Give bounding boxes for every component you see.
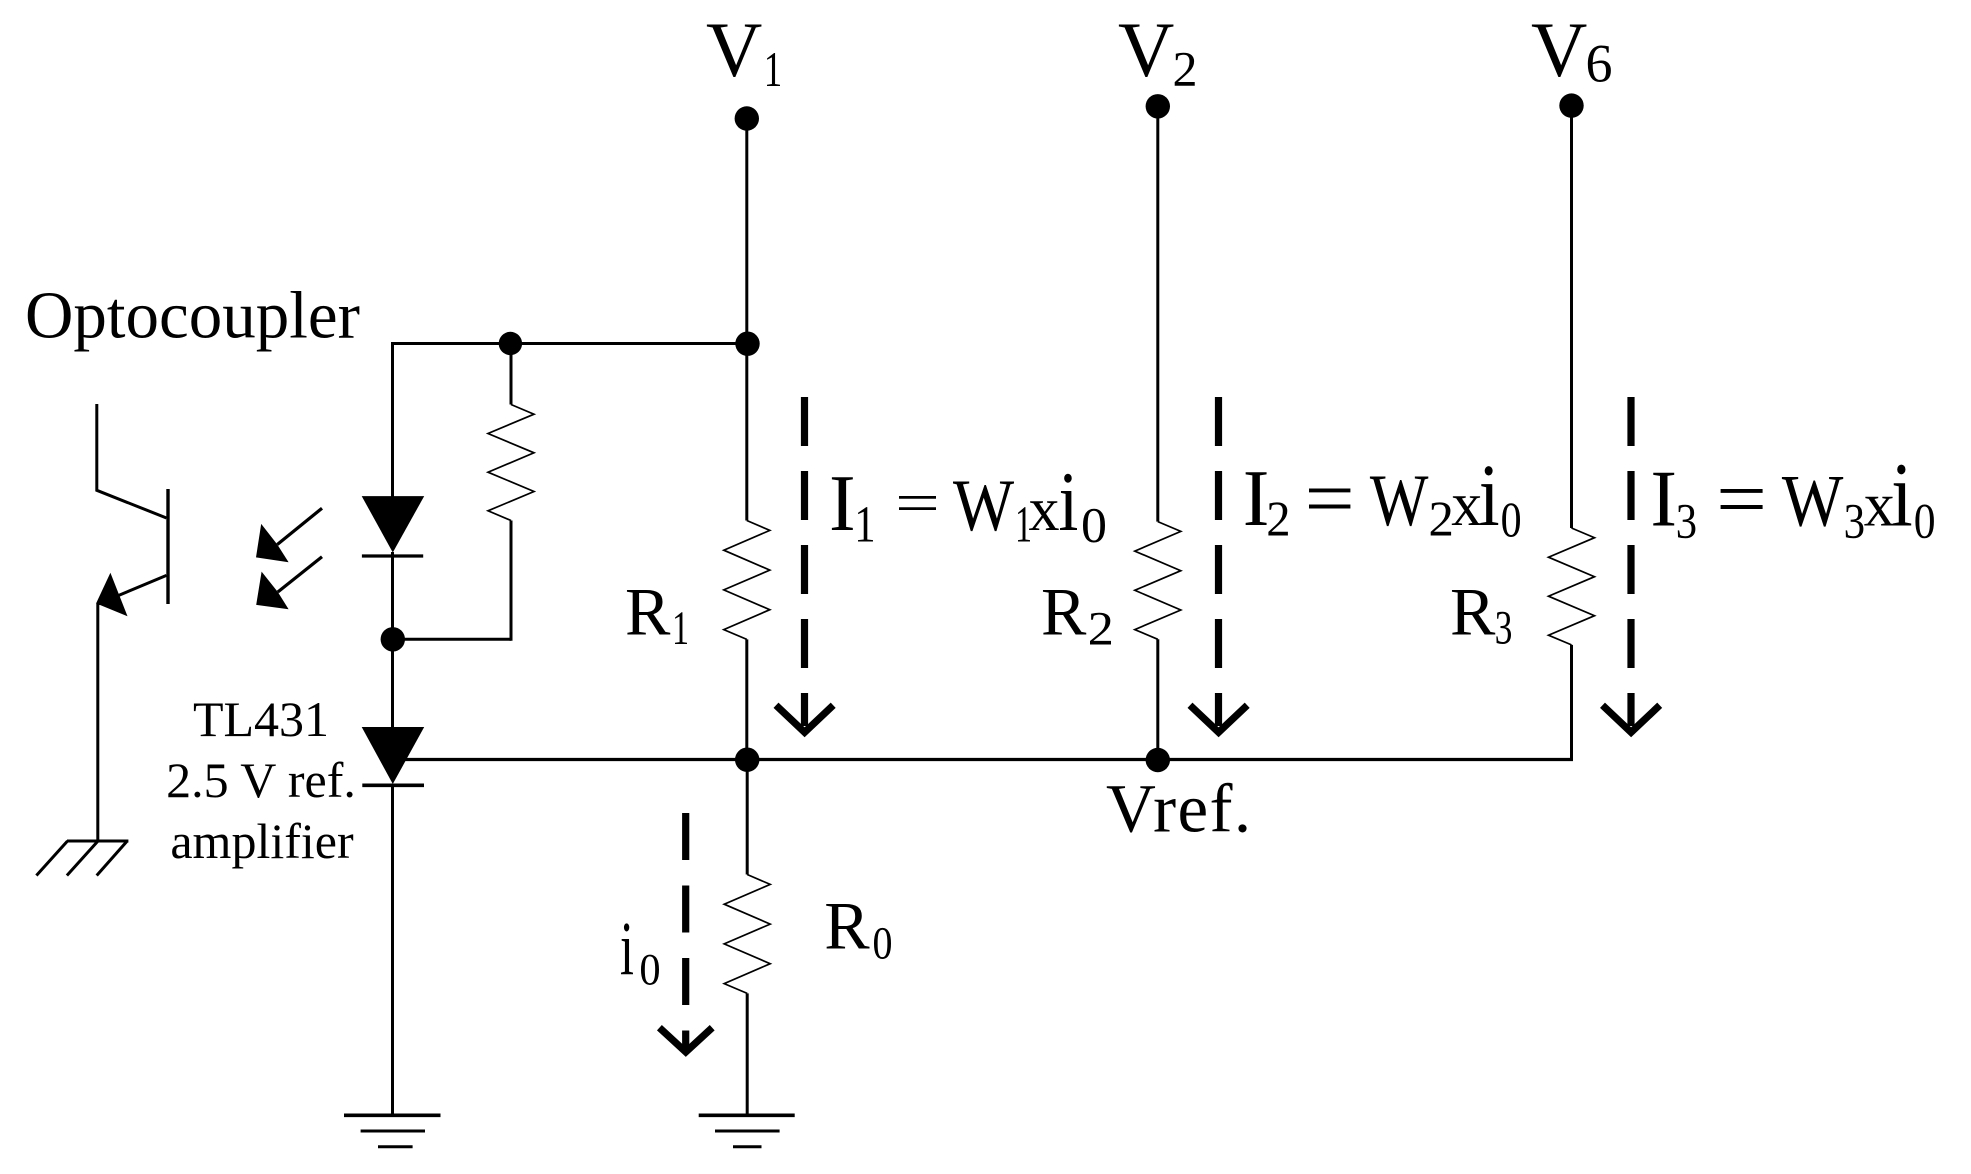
svg-text:x: x bbox=[1864, 472, 1895, 540]
TL431 U1 triangle bbox=[362, 727, 425, 784]
chassis ground slash 3 bbox=[97, 841, 128, 876]
wire V2 vertical bbox=[1156, 106, 1159, 521]
transistor Q1 emitter lead bbox=[98, 575, 167, 840]
junction dot bias resistor tap bbox=[499, 332, 522, 355]
resistor R0 zigzag bbox=[724, 875, 770, 994]
svg-text:R: R bbox=[625, 574, 671, 650]
transistor Q1 emitter arrowhead bbox=[96, 573, 127, 617]
wire R0 top bbox=[746, 760, 749, 875]
svg-text:R: R bbox=[1041, 574, 1087, 650]
junction dot Vref/R1/R0 bbox=[735, 748, 759, 772]
current arrow i0 dashes bbox=[682, 813, 689, 1048]
wire LED cathode to junction bbox=[391, 552, 394, 728]
ground (TL431) bar 3 bbox=[378, 1145, 413, 1148]
transistor Q1 base bar bbox=[166, 489, 169, 604]
resistor Rbias zigzag bbox=[488, 405, 534, 521]
wire Vref horizontal bbox=[405, 758, 1573, 761]
svg-text:I: I bbox=[1650, 456, 1677, 544]
wire LED anode drop bbox=[391, 342, 394, 497]
wire bias resistor bottom bbox=[510, 521, 513, 641]
wire top horizontal bbox=[391, 342, 748, 345]
transistor Q1 collector lead bbox=[97, 404, 167, 518]
svg-text:2: 2 bbox=[1173, 41, 1198, 97]
ground (R0) bar 1 bbox=[699, 1114, 795, 1118]
junction dot Vref/R2 bbox=[1146, 748, 1170, 772]
svg-text:V: V bbox=[1531, 6, 1587, 93]
light arrow 1 head bbox=[256, 524, 289, 562]
wire TL431 to ground bbox=[391, 784, 394, 1115]
resistor R3 zigzag bbox=[1549, 528, 1595, 645]
terminal dot V1 bbox=[735, 106, 759, 130]
ground (R0) bar 3 bbox=[733, 1145, 762, 1148]
chassis ground (emitter) bar bbox=[67, 840, 128, 843]
ground (R0) bar 2 bbox=[715, 1130, 780, 1133]
svg-text:I: I bbox=[1243, 455, 1270, 543]
svg-text:amplifier: amplifier bbox=[170, 813, 354, 869]
junction dot top wire / V1 bbox=[735, 332, 759, 356]
current arrow I1 chevron bbox=[776, 705, 833, 732]
svg-text:x: x bbox=[1029, 476, 1060, 544]
resistor R1 zigzag bbox=[724, 521, 770, 640]
LED D1 triangle bbox=[362, 496, 425, 552]
svg-text:Optocoupler: Optocoupler bbox=[25, 279, 360, 353]
svg-text:R: R bbox=[1450, 574, 1496, 650]
TL431 U1 cathode bar bbox=[362, 783, 424, 787]
ground (TL431) bar 1 bbox=[344, 1114, 441, 1118]
terminal dot V2 bbox=[1146, 94, 1170, 118]
svg-text:6: 6 bbox=[1586, 34, 1613, 94]
current arrow I3 dashes bbox=[1627, 397, 1634, 726]
svg-text:TL431: TL431 bbox=[193, 691, 329, 747]
svg-text:R: R bbox=[824, 888, 870, 964]
junction dot LED cathode node bbox=[381, 627, 405, 651]
wire V1 vertical bbox=[745, 119, 748, 521]
terminal dot V6 bbox=[1559, 93, 1583, 117]
wire junction to bias resistor bottom bbox=[393, 638, 511, 641]
svg-text:2.5 V ref.: 2.5 V ref. bbox=[166, 752, 356, 808]
svg-text:V: V bbox=[1118, 6, 1174, 93]
current arrow I2 dashes bbox=[1215, 397, 1222, 726]
resistor R2 zigzag bbox=[1135, 522, 1181, 640]
wire R3 bottom bbox=[1570, 645, 1573, 761]
light arrow 2 line bbox=[278, 557, 322, 592]
current arrow I1 dashes bbox=[801, 397, 808, 726]
svg-text:x: x bbox=[1451, 471, 1482, 539]
svg-text:Vref.: Vref. bbox=[1106, 771, 1253, 847]
svg-text:V: V bbox=[706, 6, 762, 93]
wire bias resistor top bbox=[510, 344, 513, 405]
ground (TL431) bar 2 bbox=[361, 1130, 425, 1133]
light arrow 2 head bbox=[256, 572, 288, 610]
current arrow i0 chevron bbox=[659, 1028, 712, 1052]
chassis ground slash 1 bbox=[36, 841, 67, 876]
LED D1 cathode bar bbox=[362, 554, 423, 557]
wire R0 bottom bbox=[746, 993, 749, 1114]
light arrow 1 line bbox=[277, 508, 322, 544]
current arrow I2 chevron bbox=[1190, 705, 1247, 732]
chassis ground slash 2 bbox=[67, 841, 98, 876]
current arrow I3 chevron bbox=[1603, 705, 1660, 732]
wire R2 bottom bbox=[1156, 639, 1159, 761]
wire R1 bottom bbox=[745, 639, 748, 761]
wire V6 vertical bbox=[1570, 106, 1573, 528]
label i0 bbox=[621, 923, 633, 974]
svg-text:I: I bbox=[829, 460, 856, 548]
